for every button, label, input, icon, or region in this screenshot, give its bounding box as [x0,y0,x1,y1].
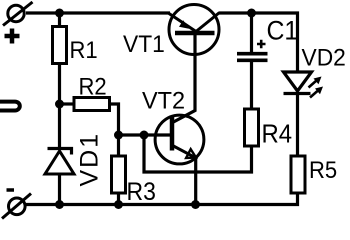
svg-text:VT1: VT1 [123,31,165,58]
svg-text:R4: R4 [262,120,293,149]
svg-text:VD1: VD1 [76,132,104,187]
svg-text:VT2: VT2 [142,87,185,114]
svg-text:C1: C1 [267,17,299,46]
svg-text:VD2: VD2 [302,44,346,71]
svg-text:R3: R3 [127,178,156,206]
svg-text:R1: R1 [70,36,98,63]
svg-text:R2: R2 [79,73,107,100]
svg-text:R5: R5 [309,156,337,183]
